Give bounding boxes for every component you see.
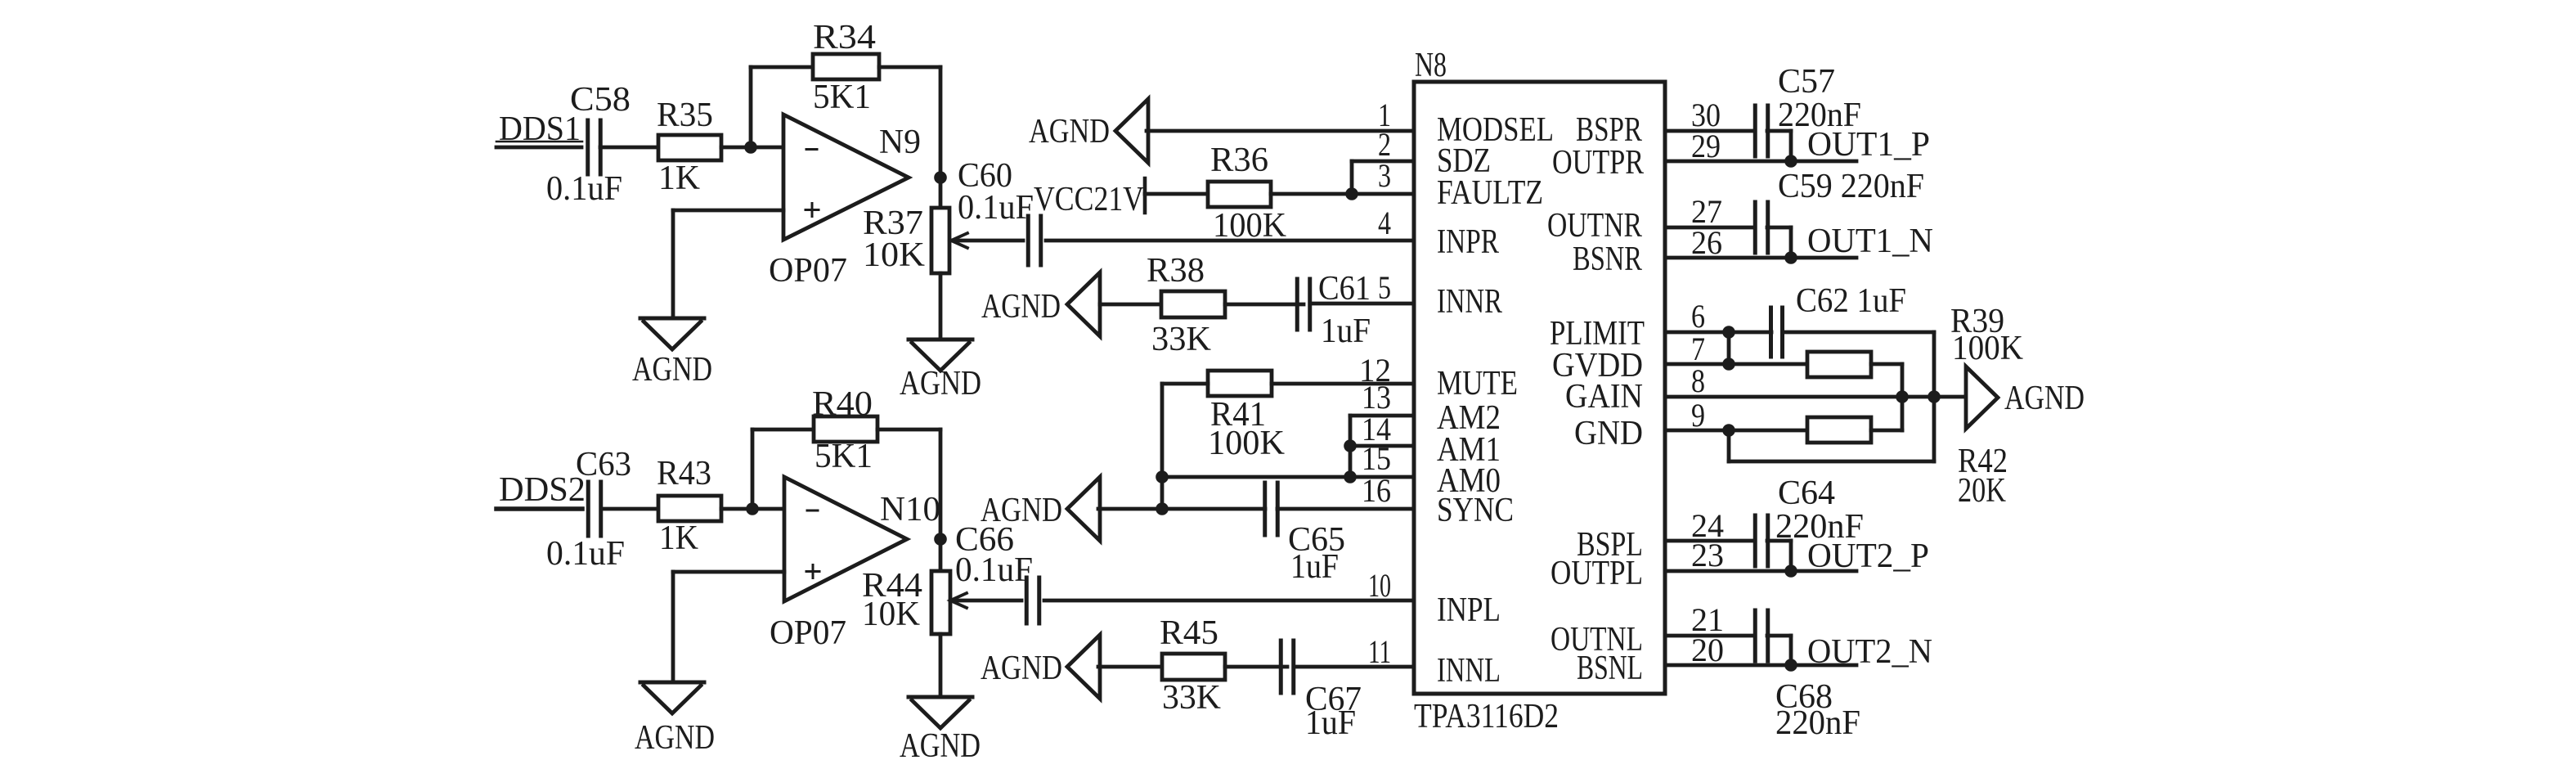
svg-text:1uF: 1uF [1290,548,1339,586]
svg-text:INNR: INNR [1437,283,1502,321]
svg-text:N9: N9 [879,124,921,161]
svg-text:OUTPR: OUTPR [1552,144,1644,182]
svg-text:AGND: AGND [2004,380,2085,417]
svg-text:33K: 33K [1162,679,1221,717]
svg-text:5: 5 [1378,269,1391,306]
svg-text:9: 9 [1691,397,1705,434]
svg-text:VCC21V: VCC21V [1034,181,1144,218]
svg-text:OUT1_P: OUT1_P [1807,126,1930,164]
svg-text:26: 26 [1691,224,1722,261]
svg-text:R43: R43 [657,455,711,492]
svg-text:10K: 10K [863,236,925,274]
svg-text:N8: N8 [1415,47,1447,84]
svg-text:0.1uF: 0.1uF [546,170,622,208]
svg-text:1K: 1K [658,160,700,197]
svg-text:GAIN: GAIN [1565,378,1643,416]
svg-text:R45: R45 [1160,614,1218,652]
svg-text:OP07: OP07 [770,614,846,652]
svg-text:20K: 20K [1958,472,2006,510]
svg-text:N10: N10 [880,491,940,528]
svg-text:220nF: 220nF [1775,704,1860,742]
svg-text:OUTPL: OUTPL [1551,555,1643,592]
svg-text:AGND: AGND [900,727,981,765]
svg-text:6: 6 [1691,298,1705,335]
svg-text:8: 8 [1691,362,1705,399]
svg-text:33K: 33K [1151,321,1211,358]
svg-text:0.1uF: 0.1uF [546,535,625,573]
svg-text:SYNC: SYNC [1437,492,1514,529]
svg-text:OUT2_P: OUT2_P [1807,537,1929,575]
svg-text:C63: C63 [576,446,631,483]
svg-text:5K1: 5K1 [813,79,871,116]
svg-text:R35: R35 [657,97,713,134]
svg-text:INNL: INNL [1437,652,1501,690]
svg-text:1K: 1K [659,519,698,557]
svg-text:AGND: AGND [981,492,1062,529]
svg-text:R36: R36 [1210,142,1268,179]
svg-text:AGND: AGND [981,650,1062,687]
svg-text:AGND: AGND [635,719,715,757]
svg-text:GND: GND [1574,415,1643,452]
svg-text:TPA3116D2: TPA3116D2 [1414,698,1559,735]
svg-text:MUTE: MUTE [1437,365,1518,402]
svg-text:10K: 10K [862,596,920,633]
svg-text:OUT2_N: OUT2_N [1807,633,1932,671]
svg-text:10: 10 [1368,567,1391,604]
svg-text:C58: C58 [570,81,631,119]
svg-text:C59 220nF: C59 220nF [1778,168,1924,205]
svg-text:C64: C64 [1778,474,1835,512]
svg-text:C62 1uF: C62 1uF [1796,282,1906,320]
svg-text:AGND: AGND [900,365,981,402]
svg-text:3: 3 [1378,157,1391,194]
svg-text:16: 16 [1362,472,1391,509]
svg-text:1uF: 1uF [1321,313,1371,350]
svg-text:4: 4 [1378,205,1391,241]
svg-text:1uF: 1uF [1305,704,1356,742]
svg-text:29: 29 [1691,128,1721,164]
svg-text:11: 11 [1368,633,1391,670]
svg-text:100K: 100K [1208,425,1285,462]
svg-text:AGND: AGND [1029,113,1110,151]
svg-text:R34: R34 [813,19,876,56]
svg-text:0.1uF: 0.1uF [955,551,1033,589]
svg-text:AGND: AGND [632,351,712,389]
svg-text:0.1uF: 0.1uF [958,189,1034,227]
svg-text:100K: 100K [1952,330,2023,367]
svg-text:OUTNR: OUTNR [1547,207,1642,245]
svg-text:5K1: 5K1 [815,438,873,475]
svg-text:100K: 100K [1213,207,1286,245]
svg-text:OP07: OP07 [769,252,847,290]
svg-text:OUT1_N: OUT1_N [1807,223,1933,260]
svg-text:BSNR: BSNR [1573,241,1642,278]
svg-text:R40: R40 [812,385,873,423]
svg-text:BSNL: BSNL [1577,650,1643,687]
svg-text:INPR: INPR [1437,223,1499,261]
svg-text:R38: R38 [1147,252,1205,290]
svg-text:FAULTZ: FAULTZ [1437,174,1543,212]
svg-text:C57: C57 [1778,63,1835,101]
svg-text:AGND: AGND [981,288,1061,326]
svg-text:DDS2: DDS2 [499,471,586,509]
svg-text:INPL: INPL [1437,591,1501,629]
